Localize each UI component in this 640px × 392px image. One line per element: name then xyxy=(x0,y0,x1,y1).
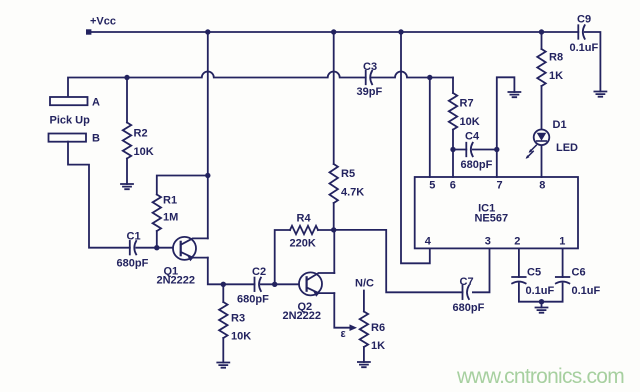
watermark xyxy=(456,365,624,388)
svg-text:C7: C7 xyxy=(460,276,474,288)
svg-text:C4: C4 xyxy=(465,131,480,143)
wire C2 to Q2 base xyxy=(261,283,307,285)
wire pickup/R2/C3 line with crossover hops xyxy=(68,72,453,98)
svg-text:R8: R8 xyxy=(549,52,563,64)
svg-text:0.1uF: 0.1uF xyxy=(526,285,555,297)
capacitor C1 680pF xyxy=(117,231,149,270)
junction Vcc/R8 xyxy=(539,29,544,34)
svg-text:C9: C9 xyxy=(577,14,591,26)
svg-text:+Vcc: +Vcc xyxy=(90,16,116,28)
wire Q2 collector up to node xyxy=(333,230,335,273)
capacitor C9 0.1uF xyxy=(570,14,599,55)
svg-text:C5: C5 xyxy=(527,267,541,279)
wire C9 to ground xyxy=(585,32,601,92)
transistor Q2 2N2222 xyxy=(283,272,335,322)
pin 4 to Vcc xyxy=(401,32,432,263)
capacitor C2 680pF xyxy=(237,266,269,306)
svg-text:0.1uF: 0.1uF xyxy=(572,285,601,297)
pickup plate B xyxy=(49,133,101,145)
ground at pin 7 xyxy=(508,92,520,97)
junction Vcc/Q1-collector column xyxy=(205,29,210,34)
resistor R1 1M xyxy=(153,176,208,248)
svg-text:R7: R7 xyxy=(460,98,474,110)
pickup plate A xyxy=(50,97,100,109)
capacitor C7 680pF xyxy=(453,276,485,314)
op-amp IC1 NE567 body xyxy=(415,177,578,248)
junction R2 top xyxy=(124,75,129,80)
svg-text:2N2222: 2N2222 xyxy=(283,310,322,322)
resistor R7 10K xyxy=(449,93,480,130)
pickup label xyxy=(50,115,91,127)
svg-text:2N2222: 2N2222 xyxy=(157,275,196,287)
junction Vcc/pin4 column xyxy=(398,29,403,34)
resistor R5 4.7K xyxy=(330,32,365,230)
ground below R3 xyxy=(217,363,229,368)
svg-text:1M: 1M xyxy=(163,212,178,224)
wire Q1 emitter down to R3/C2 node xyxy=(208,258,255,285)
svg-text:NE567: NE567 xyxy=(474,213,508,225)
junction Vcc/R5 column xyxy=(331,29,336,34)
svg-text:LED: LED xyxy=(556,142,578,154)
svg-text:R1: R1 xyxy=(163,195,177,207)
svg-text:5: 5 xyxy=(429,180,435,192)
svg-text:1: 1 xyxy=(559,235,565,247)
svg-text:39pF: 39pF xyxy=(357,86,383,98)
capacitor C3 xyxy=(357,61,383,98)
svg-text:R3: R3 xyxy=(231,313,245,325)
svg-text:N/C: N/C xyxy=(355,278,374,290)
svg-text:10K: 10K xyxy=(460,116,480,128)
pin 1 xyxy=(559,235,565,277)
transistor Q1 2N2222 xyxy=(157,237,208,287)
ground at C9 xyxy=(594,92,606,97)
svg-text:Pick Up: Pick Up xyxy=(50,115,91,127)
svg-text:1K: 1K xyxy=(371,340,385,352)
wire C1 to Q1 base xyxy=(136,247,181,249)
pin 8 xyxy=(539,145,545,192)
svg-text:6: 6 xyxy=(450,180,456,192)
resistor R4 220K xyxy=(275,213,334,285)
svg-text:3: 3 xyxy=(485,235,491,247)
svg-text:7: 7 xyxy=(496,180,502,192)
resistor R2 10K xyxy=(123,78,154,185)
pin 2 xyxy=(514,235,520,277)
junction C5C6 ground xyxy=(539,299,544,304)
junction R3 top xyxy=(221,282,226,287)
junction C4 left xyxy=(450,147,455,152)
svg-text:4: 4 xyxy=(425,235,432,247)
svg-text:4.7K: 4.7K xyxy=(341,187,364,199)
node +Vcc label xyxy=(90,16,116,28)
resistor R8 1K xyxy=(537,32,563,130)
+Vcc terminal square xyxy=(86,29,91,34)
svg-text:R4: R4 xyxy=(297,213,312,225)
LED D1 xyxy=(526,119,578,159)
pin 6 lead xyxy=(450,78,456,192)
wiper epsilon mark xyxy=(341,328,347,340)
junction pin5 column xyxy=(427,75,432,80)
wire C5/C6 common to ground xyxy=(519,283,563,307)
svg-text:680pF: 680pF xyxy=(453,302,485,314)
svg-text:2: 2 xyxy=(514,235,520,247)
svg-text:C2: C2 xyxy=(252,266,266,278)
capacitor C4 680pF xyxy=(453,131,497,172)
wire Vcc to Q1 collector column xyxy=(207,32,209,238)
node N/C label xyxy=(355,278,374,290)
svg-text:R6: R6 xyxy=(371,322,385,334)
wire node to C7 line xyxy=(334,230,463,292)
svg-text:680pF: 680pF xyxy=(237,294,269,306)
svg-text:C1: C1 xyxy=(127,231,141,243)
svg-text:1K: 1K xyxy=(549,70,563,82)
svg-text:ε: ε xyxy=(341,328,347,340)
svg-text:10K: 10K xyxy=(231,331,251,343)
junction C4 right / pin7 xyxy=(494,147,499,152)
svg-text:R2: R2 xyxy=(134,128,148,140)
pin 3 to C7 xyxy=(473,235,491,292)
svg-text:R5: R5 xyxy=(341,168,355,180)
svg-text:220K: 220K xyxy=(290,238,316,250)
wire Q2 emitter to R6 wiper arrow xyxy=(334,293,357,331)
svg-text:10K: 10K xyxy=(134,146,154,158)
svg-text:C6: C6 xyxy=(572,267,586,279)
pin 7 to ground xyxy=(496,77,514,191)
svg-text:C3: C3 xyxy=(363,61,377,73)
pin 5 xyxy=(429,78,435,192)
junction R4/R5/Q2 collector node xyxy=(331,227,336,232)
capacitor C6 0.1uF xyxy=(556,267,601,298)
svg-text:A: A xyxy=(92,97,100,109)
junction R1 bottom / Q1 base xyxy=(154,245,159,250)
potentiometer R6 1K xyxy=(360,291,385,363)
svg-text:www.cntronics.com: www.cntronics.com xyxy=(456,365,624,388)
capacitor C5 0.1uF xyxy=(512,267,554,298)
svg-text:B: B xyxy=(92,133,100,145)
resistor R3 10K xyxy=(219,284,251,362)
wire Vcc rail xyxy=(89,31,579,33)
junction R1 top / collector column xyxy=(205,173,210,178)
ground below R2 xyxy=(121,184,133,189)
ground below R6 xyxy=(358,362,370,367)
svg-text:680pF: 680pF xyxy=(117,258,149,270)
svg-text:8: 8 xyxy=(539,180,545,192)
ground below C5/C6 xyxy=(536,308,548,313)
junction R4 left / Q2 base xyxy=(272,282,277,287)
svg-text:0.1uF: 0.1uF xyxy=(570,42,599,54)
svg-text:D1: D1 xyxy=(553,119,567,131)
svg-text:680pF: 680pF xyxy=(461,159,493,171)
wire pickup B to C1 xyxy=(68,142,130,248)
